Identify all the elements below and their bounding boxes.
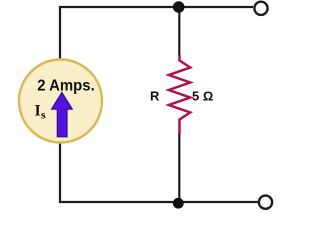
svg-text:s: s: [41, 108, 46, 122]
svg-text:5 Ω: 5 Ω: [192, 88, 213, 103]
svg-text:2 Amps.: 2 Amps.: [37, 77, 95, 94]
svg-text:I: I: [35, 102, 41, 119]
svg-text:R: R: [150, 88, 160, 103]
